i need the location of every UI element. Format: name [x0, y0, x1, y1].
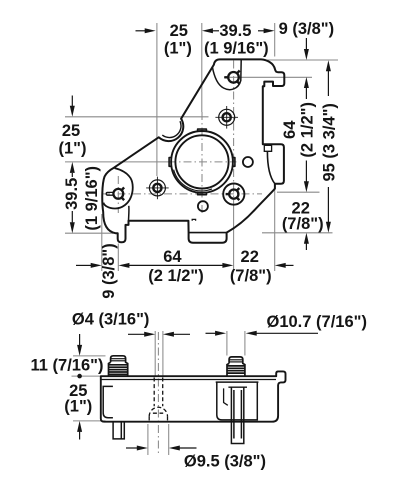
pilot circle below bore	[198, 201, 208, 211]
svg-text:(1"): (1")	[64, 398, 92, 416]
large bore outer circle	[171, 131, 233, 193]
dim 25 left arrow	[71, 96, 73, 107]
hidden o9.5 dome	[149, 407, 167, 416]
centerline horizontal y=193.9 (left ear hole / lower right hole)	[102, 193, 262, 195]
dowel hole B (o4) lower-left	[146, 177, 169, 200]
svg-text:(2 1/2"): (2 1/2")	[148, 267, 204, 285]
extension line x=233.6 (hole axis to bottom dim)	[233, 205, 235, 271]
pilot circle right of bore	[243, 157, 253, 167]
weld notch at right tab root	[264, 145, 271, 151]
svg-text:(2 1/2"): (2 1/2")	[299, 102, 317, 158]
centerline vertical ear hole x=118.3	[117, 176, 119, 213]
dim 64 bottom arrows	[118, 263, 129, 268]
plate inner top line	[102, 379, 277, 381]
svg-text:39.5: 39.5	[63, 178, 81, 210]
svg-text:25: 25	[62, 122, 80, 140]
hidden o9.5 walls	[148, 416, 150, 421]
right socket housing	[216, 382, 259, 420]
centerline vertical screw-hole axis x=233.6	[233, 61, 235, 206]
dim 64 right arrows	[304, 77, 309, 88]
svg-text:Ø9.5 (3/8"): Ø9.5 (3/8")	[184, 453, 266, 471]
dim 9 top right arrow	[305, 38, 307, 50]
svg-text:Ø4 (3/16"): Ø4 (3/16")	[72, 311, 150, 329]
dim 25 top: outside arrow	[136, 30, 147, 32]
right foot top edge line	[189, 232, 227, 234]
svg-text:39.5: 39.5	[219, 22, 251, 40]
centerline horizontal circle axis	[168, 161, 237, 163]
socket spur	[224, 388, 228, 405]
svg-text:(1 9/16"): (1 9/16")	[204, 40, 269, 58]
right threaded stud o10.7	[227, 357, 245, 376]
svg-text:25: 25	[170, 22, 188, 40]
ext lines o4	[154, 331, 156, 376]
svg-text:11 (7/16"): 11 (7/16")	[31, 356, 104, 374]
left threaded stud	[109, 356, 128, 376]
centerline hole axis bottom view	[157, 332, 159, 453]
left foot below plate	[113, 422, 124, 439]
dim 39.5 left arrows	[70, 162, 75, 173]
extension line y=77 (top hole center rightwards)	[224, 76, 312, 78]
extension line y=232.8 (right 95/22 bottom)	[262, 232, 333, 234]
ext line stud top plane y=355.9	[73, 355, 106, 357]
svg-text:Ø10.7 (7/16"): Ø10.7 (7/16")	[267, 313, 367, 331]
dim 22 bottom arrow	[275, 263, 286, 268]
large bore rim tab left	[169, 158, 171, 167]
extension line x=118.3 (ear hole to bottom dim)	[117, 244, 119, 272]
notch inner parallel arc	[162, 121, 181, 137]
ear to bottom-edge connector line	[128, 206, 130, 221]
svg-text:(1"): (1")	[59, 140, 87, 158]
top screw hole with anti-rotation wings	[224, 71, 239, 85]
small notch on bottom edge	[192, 219, 195, 220]
dim o9.5 arrows	[126, 447, 137, 449]
svg-text:(1"): (1")	[164, 40, 192, 58]
large bore rim tab top	[198, 129, 207, 131]
hidden dome chord	[153, 412, 163, 414]
ext line plate bottom y=420.9	[73, 420, 106, 422]
plate body side view with right lip	[101, 371, 286, 421]
extension line y=60 (top edge rightwards)	[265, 59, 338, 61]
extension line x=101.8 (left edge to bottom dim)	[101, 214, 103, 271]
svg-text:(7/8"): (7/8")	[282, 215, 324, 233]
dim 11 arrow	[79, 334, 81, 345]
extension line x=274.7 upper (right corner to top dim)	[274, 23, 276, 57]
ext line plate top y=376.1	[72, 375, 106, 377]
extension line y=161.9 (circle center leftwards)	[65, 161, 168, 163]
dim 22 right arrow	[304, 233, 309, 244]
centerline vertical circle axis	[201, 112, 203, 215]
extension line y=233.2 (left 39.5 bottom)	[65, 232, 113, 234]
dim 25 bottom-view arrow	[77, 421, 82, 432]
extension line y=116.8 (left 25 top)	[65, 116, 209, 118]
extension line x=201.8 (circle center to top dim)	[201, 23, 203, 112]
svg-text:64: 64	[281, 120, 299, 139]
svg-text:9 (3/8"): 9 (3/8")	[100, 243, 118, 299]
boss contour around top screw hole	[212, 60, 241, 90]
screw shank head flange	[228, 386, 247, 388]
extension line x=274.7 lower (right edge to bottom dim)	[274, 189, 276, 271]
dim 95 right arrows	[326, 60, 331, 71]
svg-text:95 (3 3/4"): 95 (3 3/4")	[320, 103, 338, 181]
large bore inner circle	[175, 135, 228, 188]
dim o10.7 arrows	[206, 332, 216, 334]
dim 11/25 dot	[77, 374, 82, 379]
ear boss contour around left screw hole	[103, 168, 132, 208]
large bore rim tab right	[233, 158, 235, 167]
dim 39.5 top: arrows and line	[202, 28, 213, 33]
extension line left edge x=156.9 (hole B axis to top dim)	[156, 23, 158, 176]
screw shank below plate	[231, 387, 243, 443]
left ear screw hole with slot	[106, 187, 124, 200]
mounting plate top-view outline	[102, 59, 284, 242]
lower right screw hole o10.7 with wings	[223, 184, 244, 205]
svg-text:(1 9/16"): (1 9/16")	[83, 166, 101, 231]
dowel hole A (o4) upper	[215, 106, 238, 129]
right tab inner curved edge	[267, 152, 275, 184]
dim o4 arrows	[128, 333, 145, 335]
ext lines o10.7	[226, 331, 228, 356]
left interior channel	[103, 386, 113, 417]
dim 9 bottom arrow	[76, 264, 91, 266]
large bore rim tab bottom	[198, 193, 207, 195]
extension line y=192.2 (right 22 top)	[277, 191, 320, 193]
hidden o4 hole walls	[153, 378, 155, 407]
svg-text:64: 64	[163, 248, 182, 266]
ext lines o9.5	[147, 424, 149, 455]
svg-text:9 (3/8"): 9 (3/8")	[279, 20, 335, 38]
svg-text:(7/8"): (7/8")	[230, 267, 272, 285]
large bore intermediate arc	[174, 170, 212, 191]
svg-text:22: 22	[241, 248, 259, 266]
